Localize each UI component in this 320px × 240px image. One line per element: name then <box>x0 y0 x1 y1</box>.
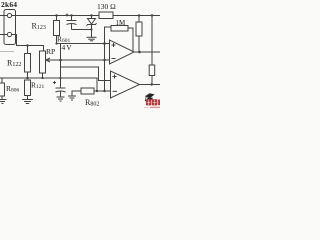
op-amp U2 (bottom) <box>111 71 140 98</box>
wire bottom rail y=78 <box>0 78 97 91</box>
ground (C2) <box>57 96 65 98</box>
junction R802 right node <box>96 90 98 92</box>
junction pull-up on rail <box>138 14 140 16</box>
svg-text:130 Ω: 130 Ω <box>97 2 116 11</box>
junction right branch on rail <box>151 14 153 16</box>
wire U1 output <box>134 51 160 53</box>
wire 4V vertical <box>60 44 62 88</box>
wire mid branch to U2 plus <box>61 67 111 81</box>
watermark logo <box>144 93 160 108</box>
zener diode VD <box>91 16 93 19</box>
wire right vertical <box>151 16 153 66</box>
potentiometer RP <box>40 51 46 73</box>
wire faint stub left <box>0 51 14 53</box>
junction R121/R122 on bottom rail <box>26 77 28 79</box>
wire 4V node <box>57 43 110 45</box>
ground (zener) <box>87 36 97 38</box>
resistor right inline <box>149 65 155 76</box>
junction RP bottom <box>41 77 43 79</box>
capacitor C2 (electrolytic, bottom) <box>56 87 66 89</box>
resistor R121 <box>25 80 31 96</box>
wire RP wiper to U1 inverting input <box>47 59 111 61</box>
junction ref on R802 node <box>103 90 105 92</box>
wire top rail y=15 <box>0 15 99 17</box>
resistor R123 <box>56 16 58 21</box>
junction zener on rail <box>90 14 92 16</box>
wire U2 output <box>140 84 161 86</box>
junction 1M on 4V wire <box>103 42 106 45</box>
svg-text:1M: 1M <box>116 19 127 27</box>
junction 4V vertical on bottom rail <box>59 77 61 79</box>
ground (R806) <box>0 99 7 101</box>
junction wiper node <box>59 59 62 62</box>
resistor 1M <box>111 26 128 32</box>
junction node 4V corner <box>55 42 57 44</box>
junction C1/zener <box>90 28 92 30</box>
RP wiper arrow <box>46 58 50 62</box>
junction C1 on rail <box>70 14 72 16</box>
resistor pull-up top-right <box>138 16 140 23</box>
resistor R806 <box>1 78 3 83</box>
resistor R122 <box>27 46 29 54</box>
sensor box (2k64) <box>4 10 16 45</box>
capacitor C1 (electrolytic, top) <box>71 16 73 21</box>
svg-text:4V: 4V <box>62 43 73 52</box>
svg-text:RP: RP <box>46 47 55 56</box>
junction U1 output <box>138 51 141 54</box>
resistor R802 <box>72 91 81 96</box>
op-amp U1 (top) <box>110 40 135 64</box>
wire cap to zener <box>72 29 92 31</box>
wire lower-left from sensor lower terminal <box>0 35 44 52</box>
svg-text:2k64: 2k64 <box>1 0 17 9</box>
resistor 130ohm <box>99 12 113 19</box>
junction ref crossing <box>103 59 105 61</box>
junction R123 top on rail <box>55 14 57 16</box>
ground (R121) <box>22 99 33 101</box>
ground (R802) <box>68 95 76 97</box>
junction R122 top <box>26 44 28 46</box>
junction U2 output <box>151 83 153 85</box>
